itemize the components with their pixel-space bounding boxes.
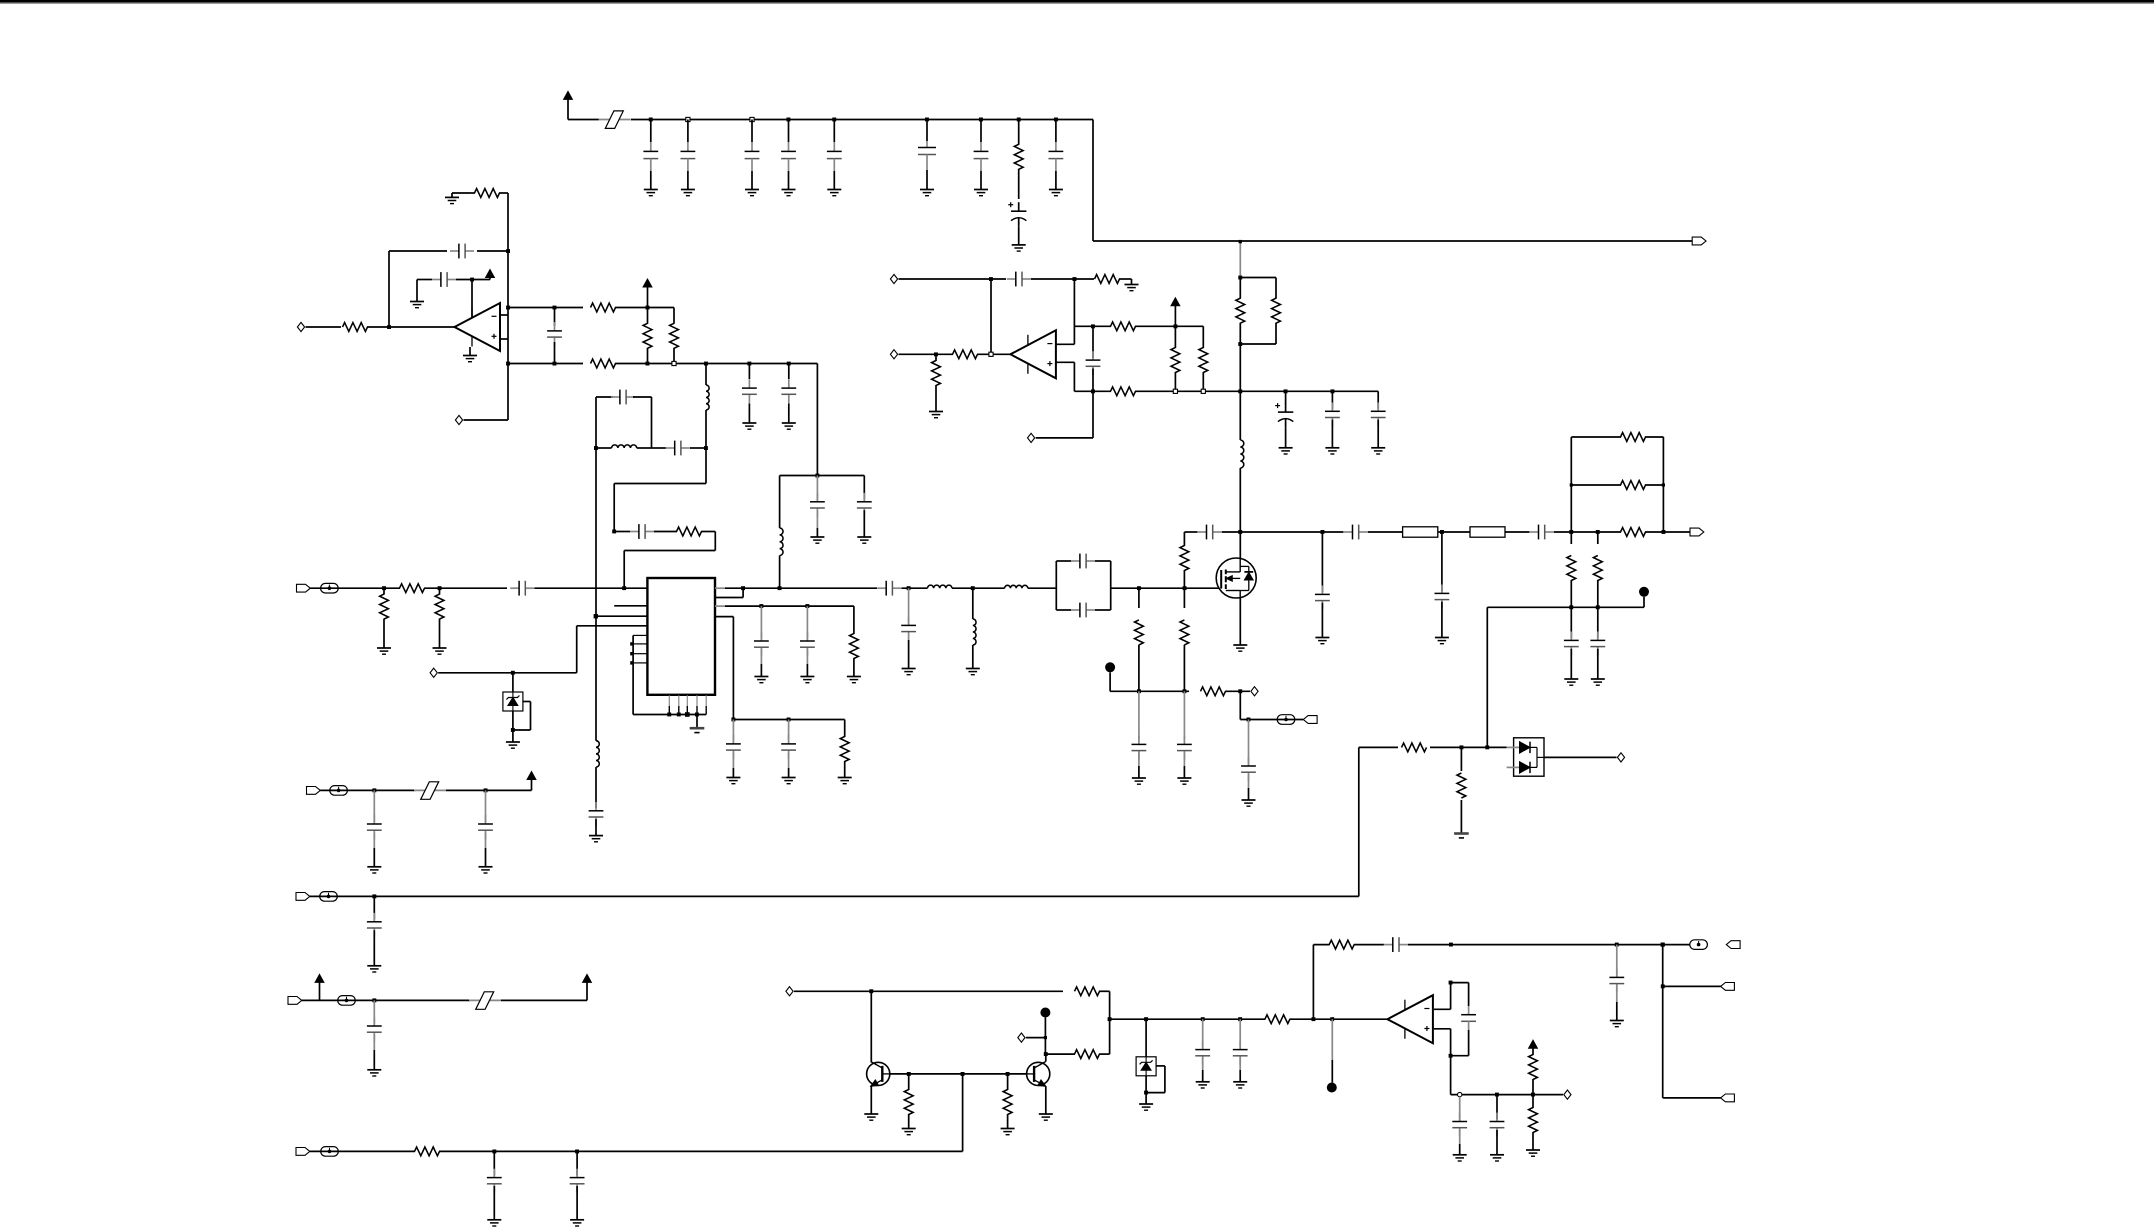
input port arrow bbox=[307, 787, 321, 795]
power flag bbox=[1529, 1040, 1538, 1048]
transistor Q1 bbox=[867, 1062, 890, 1085]
resistor to ground bbox=[908, 1074, 910, 1090]
resistor to ground bbox=[853, 606, 855, 634]
transistor M1 nmos bbox=[1216, 558, 1256, 598]
ground bbox=[742, 422, 756, 424]
capacitor C-s2 bbox=[1530, 531, 1539, 533]
ground bbox=[690, 727, 705, 730]
resistor R-d1 bbox=[1174, 326, 1176, 348]
inductor L-tank bbox=[612, 445, 637, 448]
wire bbox=[576, 626, 578, 673]
ground bbox=[570, 1219, 584, 1221]
wire bbox=[320, 789, 415, 791]
resistor R-o2in bbox=[953, 350, 978, 359]
resistor R-in a bbox=[400, 584, 425, 593]
capacitor to ground bbox=[908, 588, 910, 602]
wire bbox=[637, 447, 652, 449]
wire bbox=[512, 711, 514, 742]
wire bbox=[816, 364, 818, 476]
fuse F1 bbox=[1403, 527, 1438, 537]
resistor R-det bbox=[1402, 743, 1427, 752]
capacitor to ground bbox=[788, 364, 790, 380]
ground bbox=[1564, 678, 1578, 680]
ground bbox=[782, 189, 796, 191]
wire bbox=[1434, 1028, 1451, 1030]
wire row 532 bbox=[1184, 531, 1197, 533]
capacitor to ground bbox=[806, 606, 808, 639]
capacitor C-a bbox=[554, 308, 556, 327]
wire bbox=[779, 476, 781, 529]
inductor L-riser bbox=[780, 528, 783, 556]
wire bbox=[1240, 277, 1276, 279]
resistor R-b1 bbox=[591, 359, 616, 368]
ground bbox=[367, 965, 381, 967]
IC U2 bbox=[647, 578, 715, 695]
wire bbox=[1408, 944, 1690, 946]
capacitor C-fb2 bbox=[630, 531, 639, 533]
resistor R-fb2 bbox=[677, 527, 702, 536]
capacitor C-g bbox=[1198, 531, 1207, 533]
output flag bbox=[1690, 528, 1704, 536]
wire bbox=[1225, 690, 1250, 692]
ground bbox=[1039, 1113, 1053, 1115]
capacitor bbox=[373, 790, 375, 821]
resistor R-m bbox=[1265, 1015, 1290, 1024]
resistor R-c2 bbox=[1111, 387, 1136, 396]
wire emitter bbox=[1045, 1086, 1047, 1114]
ground bbox=[966, 668, 980, 670]
capacitor bbox=[816, 476, 818, 500]
power flag bbox=[527, 772, 536, 780]
capacitor C-c bbox=[1092, 326, 1094, 358]
wire bbox=[990, 279, 992, 354]
tank top wire bbox=[596, 396, 613, 398]
wire bbox=[501, 999, 587, 1001]
ground bbox=[902, 668, 916, 670]
wire pin row 626 bbox=[577, 625, 648, 627]
ground bbox=[754, 676, 768, 678]
wire bbox=[389, 250, 447, 252]
ground bbox=[487, 1219, 501, 1221]
wire bbox=[614, 531, 630, 533]
ground bbox=[782, 422, 796, 424]
ground bbox=[410, 301, 424, 303]
capacitor C-link bbox=[666, 447, 675, 449]
wire rail 606 bbox=[715, 605, 725, 607]
capacitor C-o4 bbox=[1468, 1006, 1470, 1015]
wire bbox=[456, 279, 490, 281]
wire inverting stub bbox=[500, 314, 508, 316]
wire bbox=[701, 531, 715, 533]
wire pin row 606 bbox=[614, 605, 647, 607]
resistor R-f1 bbox=[1529, 1055, 1538, 1080]
capacitor to ground bbox=[788, 720, 790, 740]
ground bbox=[1233, 644, 1247, 646]
resistor to row607 bbox=[1570, 532, 1572, 544]
resistor R-L3 bbox=[1621, 528, 1646, 537]
wire bbox=[1486, 607, 1488, 747]
wire row 607 bbox=[1487, 606, 1644, 608]
decoupling capacitor C2 on top rail bbox=[686, 117, 690, 121]
resistor to ground bbox=[1007, 1074, 1009, 1090]
decoupling capacitor C6 on top rail bbox=[925, 118, 929, 122]
capacitor bbox=[1616, 945, 1618, 976]
wire bbox=[310, 587, 400, 589]
wire row 691 bbox=[1110, 690, 1189, 692]
IC bottom pins bbox=[668, 695, 670, 706]
resistor R-v2 bbox=[673, 308, 675, 324]
wire bbox=[1099, 1053, 1110, 1055]
wire bbox=[1438, 531, 1442, 533]
zener diode D3 in box bbox=[1145, 1019, 1147, 1057]
ground bbox=[1012, 244, 1026, 246]
ground bbox=[681, 189, 695, 191]
wire bbox=[780, 475, 865, 477]
input port arrow bbox=[296, 893, 310, 901]
wire bbox=[794, 990, 1063, 992]
capacitor bbox=[1248, 720, 1250, 764]
wire bbox=[534, 587, 647, 589]
ground bbox=[1139, 1103, 1153, 1105]
wire bbox=[648, 307, 675, 309]
wire row 896 bbox=[310, 895, 1359, 897]
resistor to ground bbox=[1138, 588, 1140, 608]
wire bbox=[1663, 1097, 1721, 1099]
ground bbox=[902, 1128, 916, 1130]
input flag arrow bbox=[1303, 716, 1317, 724]
ground bbox=[589, 835, 603, 837]
wire bbox=[439, 1150, 963, 1152]
wire bbox=[1240, 343, 1276, 345]
resistor to row607 b bbox=[1597, 532, 1599, 544]
output port bbox=[1564, 1090, 1571, 1099]
output flag bbox=[1721, 1094, 1735, 1102]
wire bbox=[1451, 982, 1469, 984]
wire supply pin bbox=[471, 280, 473, 318]
resistor R-q2 bbox=[1075, 1050, 1100, 1059]
wire bbox=[614, 483, 706, 485]
wire tank left bbox=[595, 397, 597, 448]
wire bbox=[1487, 746, 1506, 748]
capacitor C-r1 bbox=[877, 587, 886, 589]
wire bbox=[477, 250, 508, 252]
input port bbox=[430, 668, 437, 677]
capacitor to ground bbox=[732, 720, 734, 740]
wire bbox=[1092, 391, 1094, 438]
resistor R-lad2 bbox=[1571, 484, 1621, 486]
capacitor bbox=[1321, 532, 1323, 592]
net oval bbox=[1690, 940, 1708, 950]
ground bbox=[1177, 777, 1191, 779]
ground bbox=[1132, 777, 1146, 779]
wire bbox=[446, 789, 532, 791]
input port bbox=[1018, 1033, 1025, 1042]
wire noninverting stub bbox=[500, 338, 508, 340]
ground bbox=[644, 189, 658, 191]
ground bbox=[1371, 447, 1385, 449]
wire bypass bbox=[1156, 1065, 1165, 1067]
output port bbox=[1617, 753, 1624, 762]
capacitor bbox=[373, 1000, 375, 1023]
ground bbox=[745, 189, 759, 191]
wire bbox=[1099, 990, 1110, 992]
resistor to ground bbox=[439, 588, 441, 594]
wire bbox=[1239, 241, 1241, 252]
capacitor C-in bbox=[510, 587, 519, 589]
capacitor bbox=[1459, 1097, 1461, 1120]
ground bbox=[1125, 284, 1139, 286]
ferrite bead FB3 bbox=[469, 999, 501, 1001]
output port bbox=[455, 415, 462, 424]
capacitor bbox=[1239, 1019, 1241, 1047]
ground bbox=[479, 866, 493, 868]
input port IN1 bbox=[297, 322, 304, 331]
wire bypass bbox=[523, 701, 531, 703]
IC left lower pins bbox=[633, 634, 647, 636]
wire bbox=[1505, 531, 1529, 533]
test point bbox=[1331, 1019, 1333, 1060]
ground bbox=[929, 411, 943, 413]
wire bbox=[417, 279, 432, 281]
wire bbox=[1239, 344, 1241, 440]
ground bbox=[1049, 189, 1063, 191]
wire bbox=[899, 278, 1007, 280]
ground bbox=[1233, 1081, 1247, 1083]
ground bbox=[827, 189, 841, 191]
decoupling capacitor C3 on top rail bbox=[750, 117, 754, 121]
wire bbox=[1663, 985, 1721, 987]
op-amp U1 bbox=[455, 303, 501, 351]
ground bbox=[800, 676, 814, 678]
wire bbox=[469, 347, 471, 356]
inductor L1 bbox=[706, 385, 709, 410]
wire bbox=[1074, 325, 1093, 327]
output port bbox=[1251, 687, 1258, 696]
ground bbox=[367, 1069, 381, 1071]
capacitor C-supply1 bbox=[432, 279, 441, 281]
wire bbox=[302, 999, 470, 1001]
ground bbox=[1453, 1154, 1467, 1156]
power flag bbox=[315, 974, 324, 982]
ferrite bead FB2 bbox=[414, 789, 446, 791]
fuse F2 bbox=[1470, 527, 1505, 537]
wire bbox=[1430, 746, 1487, 748]
wire bbox=[977, 353, 1010, 355]
resistor R-a1 bbox=[591, 303, 616, 312]
wire right outputs bbox=[1662, 945, 1664, 1098]
decoupling capacitor C8 on top rail bbox=[1054, 118, 1058, 122]
decoupling capacitor C1 on top rail bbox=[649, 118, 653, 122]
wire row 1019 bbox=[1110, 1018, 1266, 1020]
wire bbox=[705, 364, 707, 386]
net oval bbox=[338, 996, 356, 1006]
wire bbox=[1468, 1030, 1470, 1056]
resistor R-e bbox=[415, 1147, 440, 1156]
net oval bbox=[321, 1147, 339, 1157]
wire long vertical bbox=[595, 448, 597, 741]
wire bbox=[1057, 343, 1075, 345]
top border bar bbox=[0, 0, 2154, 3]
zener diode D1 in box bbox=[512, 673, 514, 692]
polarized capacitor C-bulk bbox=[1018, 202, 1020, 211]
ground bbox=[1454, 832, 1469, 835]
wire pin row 616 right bbox=[715, 616, 733, 618]
wire bbox=[1570, 437, 1572, 532]
wire bbox=[1289, 1018, 1387, 1020]
wire bbox=[1358, 747, 1360, 896]
wire top rail main bbox=[631, 119, 1093, 121]
capacitor bbox=[485, 790, 487, 821]
ground bbox=[1490, 1154, 1504, 1156]
capacitor bbox=[1331, 391, 1333, 409]
wire bbox=[1222, 531, 1241, 533]
capacitor C-o2 bbox=[1007, 278, 1016, 280]
inductor L-r2 bbox=[1005, 585, 1028, 588]
wire base row bbox=[890, 1073, 1027, 1075]
wire bbox=[1239, 468, 1241, 532]
resistor R-gate-pull bbox=[1183, 532, 1185, 546]
capacitor bbox=[595, 802, 597, 811]
ground bbox=[1196, 1081, 1210, 1083]
wire bbox=[654, 531, 677, 533]
capacitor bbox=[493, 1151, 495, 1175]
ground bbox=[847, 676, 861, 678]
ground bbox=[810, 536, 824, 538]
resistor to ground bbox=[1460, 747, 1462, 771]
net oval bbox=[1277, 715, 1295, 725]
test point bbox=[1639, 587, 1649, 597]
capacitor C-tank bbox=[611, 396, 620, 398]
wire feedback vertical bbox=[507, 193, 509, 420]
wire bbox=[1111, 587, 1221, 589]
resistor to ground bbox=[844, 720, 846, 738]
capacitor bbox=[576, 1151, 578, 1175]
resistor R-q bbox=[1075, 987, 1100, 996]
resistor R-f2 bbox=[1532, 1095, 1534, 1108]
wire drain bbox=[1239, 532, 1241, 558]
test point bbox=[1040, 1008, 1050, 1018]
ground bbox=[1279, 447, 1293, 449]
capacitor C-fb1 bbox=[450, 250, 459, 252]
wire bbox=[779, 556, 781, 589]
inductor L-v bbox=[596, 741, 599, 767]
net oval bbox=[320, 892, 338, 902]
wire tank right bbox=[651, 397, 653, 448]
decoupling capacitor C4 on top rail bbox=[787, 118, 791, 122]
input port arrow bbox=[296, 1148, 310, 1156]
wire bbox=[690, 447, 706, 449]
resistor to ground bbox=[935, 354, 937, 361]
resistor R-sense bbox=[1201, 687, 1226, 696]
wire bbox=[1645, 531, 1690, 533]
output flag bbox=[1726, 941, 1740, 949]
capacitor bbox=[1138, 691, 1140, 740]
wire bbox=[1368, 531, 1403, 533]
wire bbox=[899, 353, 954, 355]
wire bbox=[452, 192, 470, 194]
power flag VCC top bbox=[564, 91, 573, 99]
inductor L-d bbox=[1240, 440, 1244, 468]
wire bbox=[952, 587, 1005, 589]
capacitor bbox=[373, 896, 375, 919]
input port bbox=[786, 987, 793, 996]
wire source to ground bbox=[1239, 598, 1241, 645]
wire bbox=[310, 1150, 415, 1152]
wire bbox=[633, 396, 652, 398]
wire row 719 bbox=[733, 719, 844, 721]
capacitor C-s1 bbox=[1344, 531, 1353, 533]
capacitor bbox=[1441, 532, 1443, 591]
ground bbox=[1526, 1149, 1540, 1151]
input port bbox=[890, 350, 897, 359]
ground bbox=[726, 777, 740, 779]
wire bbox=[596, 447, 612, 449]
wire bbox=[613, 484, 615, 532]
output flag bbox=[1721, 983, 1735, 991]
transistor Q2 bbox=[1027, 1062, 1050, 1085]
capacitor to ground bbox=[760, 606, 762, 639]
wire rail 588 bbox=[715, 587, 725, 589]
wire bbox=[595, 767, 597, 808]
wire bbox=[1554, 531, 1572, 533]
ground bbox=[463, 355, 477, 357]
wire top rail bbox=[568, 119, 599, 121]
op-amp U4 bbox=[1387, 995, 1433, 1043]
capacitor bbox=[863, 476, 865, 500]
capacitor C-fb3 bbox=[1384, 944, 1393, 946]
wire gate bbox=[1220, 587, 1222, 589]
wire bbox=[1046, 1053, 1075, 1055]
polarized capacitor bbox=[1285, 391, 1287, 404]
wire bbox=[870, 991, 872, 1062]
input port arrow bbox=[288, 997, 302, 1005]
wire emitter bbox=[870, 1086, 872, 1114]
power flag bbox=[1171, 298, 1180, 306]
wire row 1094 bbox=[1451, 1094, 1563, 1096]
op-amp U3 bbox=[1010, 330, 1056, 378]
ground bbox=[433, 647, 447, 649]
wire collector bbox=[1045, 1054, 1047, 1061]
decoupling capacitor C5 on top rail bbox=[832, 118, 836, 122]
wire bbox=[696, 715, 698, 728]
wire long inductor branch bbox=[595, 740, 597, 742]
decoupling capacitor C7 on top rail bbox=[979, 118, 983, 122]
capacitor to ground bbox=[748, 364, 750, 380]
ground bbox=[1435, 637, 1449, 639]
power flag bbox=[643, 279, 652, 287]
wire bbox=[1028, 587, 1057, 589]
resistor R-rail bbox=[1017, 118, 1021, 122]
wire pin row 616 bbox=[596, 615, 648, 617]
ground bbox=[367, 866, 381, 868]
resistor R-fb3 bbox=[1329, 940, 1354, 949]
wire bbox=[1354, 944, 1384, 946]
wire bbox=[705, 410, 707, 448]
resistor R-p2 bbox=[1275, 278, 1277, 299]
capacitor bbox=[1597, 607, 1599, 638]
power flag bbox=[486, 270, 495, 278]
crystal filter box with two capacitors bbox=[1055, 561, 1057, 610]
wire bbox=[1434, 1008, 1451, 1010]
ground bbox=[1610, 1020, 1624, 1022]
ground bbox=[920, 189, 934, 191]
ground bbox=[1325, 447, 1339, 449]
ground bbox=[445, 196, 459, 198]
capacitor bbox=[1183, 691, 1185, 740]
wire pin step bbox=[715, 597, 743, 599]
input port RF arrow bbox=[297, 584, 311, 592]
wire bbox=[1359, 746, 1398, 748]
